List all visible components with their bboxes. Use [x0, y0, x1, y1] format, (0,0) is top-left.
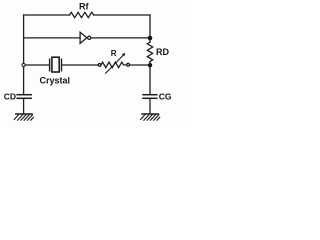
wire top horizontal (left of Rf): [24, 14, 70, 16]
node junction dot (inverter output / Rf): [148, 36, 153, 41]
crystal X1 right plate: [61, 59, 63, 71]
variable resistor R arrow: [106, 54, 125, 73]
capacitor CD bottom plate: [17, 97, 31, 99]
variable resistor R arrowhead: [122, 53, 126, 56]
wire right rail top segment: [149, 15, 151, 42]
wire left vertical rail: [23, 15, 25, 94]
ground (left, under CD): [14, 114, 34, 121]
node junction dot (RD bottom / crystal row): [148, 63, 152, 67]
resistor R zigzag: [101, 62, 126, 68]
resistor Rf: [70, 12, 94, 17]
wire right rail to CG: [149, 65, 151, 94]
op-amp U1 (inverter triangle): [80, 32, 87, 43]
wire inverter input: [24, 37, 80, 39]
crystal X1 left plate: [49, 59, 51, 71]
wire CD to ground: [23, 99, 25, 114]
wire CG to ground: [149, 99, 151, 114]
svg-text:R: R: [111, 49, 117, 58]
crystal X1 body: [52, 57, 59, 72]
inverter output bubble: [88, 36, 91, 39]
capacitor CG top plate: [143, 94, 157, 96]
capacitor CD top plate: [17, 94, 31, 96]
wire RD bottom to node: [149, 62, 151, 65]
capacitor CG bottom plate: [143, 97, 157, 99]
ground (right, under CG): [140, 114, 160, 121]
wire crystal to R: [62, 64, 98, 66]
resistor RD: [147, 42, 152, 62]
svg-text:CG: CG: [159, 92, 172, 102]
svg-text:CD: CD: [4, 92, 16, 102]
variable resistor R left terminal: [98, 64, 101, 67]
variable resistor R right terminal: [127, 63, 130, 66]
wire R to right rail: [130, 64, 150, 66]
wire top horizontal (right of Rf): [94, 14, 150, 16]
node terminal circle (crystal row at left rail): [22, 63, 25, 66]
svg-text:RD: RD: [156, 47, 169, 57]
wire crystal row left: [25, 64, 49, 66]
svg-text:Rf: Rf: [79, 2, 89, 12]
svg-text:Crystal: Crystal: [40, 75, 71, 85]
wire inverter output: [91, 37, 150, 39]
